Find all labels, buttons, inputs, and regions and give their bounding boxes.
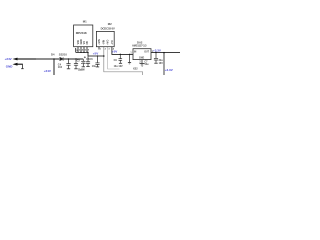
svg-text:DCDC03-5V: DCDC03-5V <box>101 27 115 31</box>
diode D4 <box>60 57 63 60</box>
LDO pin labels <box>130 52 153 64</box>
junction dot at x76 <box>75 58 76 59</box>
arrow +24V input <box>13 58 37 61</box>
junction dot input wire at x129.5 <box>129 54 130 55</box>
ground bar C10 <box>154 62 157 65</box>
svg-text:-VIN: -VIN <box>102 40 105 45</box>
svg-text:OUT: OUT <box>144 52 149 54</box>
M1 pin name texts (vertical) <box>77 39 89 45</box>
junction dot mid rail at pin2 <box>103 55 105 57</box>
M2 pin numbers <box>100 47 115 50</box>
wire bus +5V under U1 <box>76 51 88 53</box>
junction dot input wire at x120.3 <box>120 54 122 56</box>
capacitor C2 at x76 <box>74 59 78 68</box>
pin stub M1 pin b <box>77 47 79 53</box>
LDO box <box>133 49 151 60</box>
wire +24V rail <box>17 58 60 60</box>
svg-text:IN: IN <box>134 52 137 54</box>
arrow GND input <box>13 63 23 66</box>
wire M2 pin1 stub <box>98 47 100 50</box>
svg-text:GND: GND <box>6 64 14 68</box>
capacitor C4 at x68.5 <box>66 59 70 68</box>
ground bar C5 <box>96 66 99 69</box>
svg-text:+VIN: +VIN <box>98 39 101 45</box>
LDO gnd stub <box>141 60 143 64</box>
svg-text:+24V: +24V <box>5 57 12 61</box>
capacitor C9 input side x120.3 <box>119 54 123 63</box>
svg-text:16V: 16V <box>159 62 164 65</box>
polarized capacitor C3 at x83.3 <box>81 59 85 66</box>
ground bar C6 <box>86 65 89 68</box>
ground bar C4 <box>67 67 70 70</box>
junction dot at x68.5 <box>68 58 70 60</box>
wire LDO output to right edge <box>151 52 180 54</box>
ground bar C2 <box>74 67 77 70</box>
junction dots on bus <box>80 52 81 53</box>
wire M2 pin2 long down to connector box <box>104 47 143 75</box>
IC M1 box <box>74 25 93 47</box>
svg-text:+3.3V: +3.3V <box>153 49 161 53</box>
wire bus down step at x88 <box>87 52 89 56</box>
wire M2 pin4 stub + to LDO input <box>112 47 133 55</box>
ground symbol under LDO <box>140 63 145 66</box>
svg-text:M2: M2 <box>108 22 112 26</box>
svg-text:-VO: -VO <box>111 40 114 45</box>
pin stub M1 pin a <box>75 48 77 52</box>
gnd drop x129.5 before LDO <box>129 54 131 62</box>
svg-text:10u: 10u <box>144 63 149 66</box>
IC M2 box <box>96 31 114 46</box>
svg-text:D4: D4 <box>51 52 55 56</box>
svg-text:22u/50V: 22u/50V <box>78 70 85 72</box>
pin stub M1 pin d <box>83 47 85 53</box>
svg-text:MP2318: MP2318 <box>76 31 87 35</box>
gnd foot <box>21 67 24 70</box>
junction dot at x54 <box>53 58 55 60</box>
wire vertical +3.3V down branch <box>163 53 165 75</box>
svg-text:AMS1117-3.3: AMS1117-3.3 <box>132 43 147 47</box>
svg-text:FB: FB <box>86 41 89 44</box>
svg-text:10u 16V: 10u 16V <box>114 65 123 68</box>
plus mark <box>84 56 86 58</box>
wire +5V middle rail y56 <box>88 55 104 57</box>
ground bar C9 <box>119 62 122 65</box>
pin stub M1 pin c <box>80 47 82 53</box>
capacitor C5 at x97.5 from mid rail <box>95 56 99 67</box>
svg-text:XS2: XS2 <box>133 67 138 70</box>
ground bar C3 <box>82 65 85 68</box>
junction dot on 3.3V wire <box>163 52 165 54</box>
svg-text:+5V: +5V <box>93 51 98 55</box>
svg-text:GND: GND <box>139 58 144 60</box>
wire M2 pin3 faint gnd stub <box>108 47 120 69</box>
svg-text:M1: M1 <box>83 20 87 24</box>
wire GND corner down <box>21 64 23 68</box>
svg-text:+24V: +24V <box>44 69 51 73</box>
svg-text:+VO: +VO <box>107 40 110 45</box>
svg-text:10u: 10u <box>92 65 97 68</box>
svg-text:104: 104 <box>58 66 63 69</box>
wire vertical +24V down branch <box>53 59 55 75</box>
capacitor C6 at x88 from mid rail <box>86 56 90 66</box>
M1 pin numbers <box>76 48 89 51</box>
svg-text:+3.3V: +3.3V <box>165 68 173 72</box>
capacitor C10 output side x156 <box>154 53 158 63</box>
pin stub M1 pin e <box>86 47 88 53</box>
M2 pin name texts (vertical) <box>98 39 114 45</box>
ground bars x129.5 <box>128 61 131 64</box>
wire after diode <box>64 58 84 60</box>
svg-text:SS210: SS210 <box>59 52 68 56</box>
junction dot mid rail at x97.5 <box>97 55 98 56</box>
